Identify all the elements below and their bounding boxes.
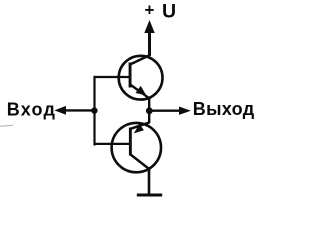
svg-text:+: +: [145, 1, 155, 20]
svg-text:Выход: Выход: [193, 99, 255, 119]
svg-text:Вход: Вход: [7, 99, 56, 119]
svg-text:U: U: [162, 1, 176, 23]
